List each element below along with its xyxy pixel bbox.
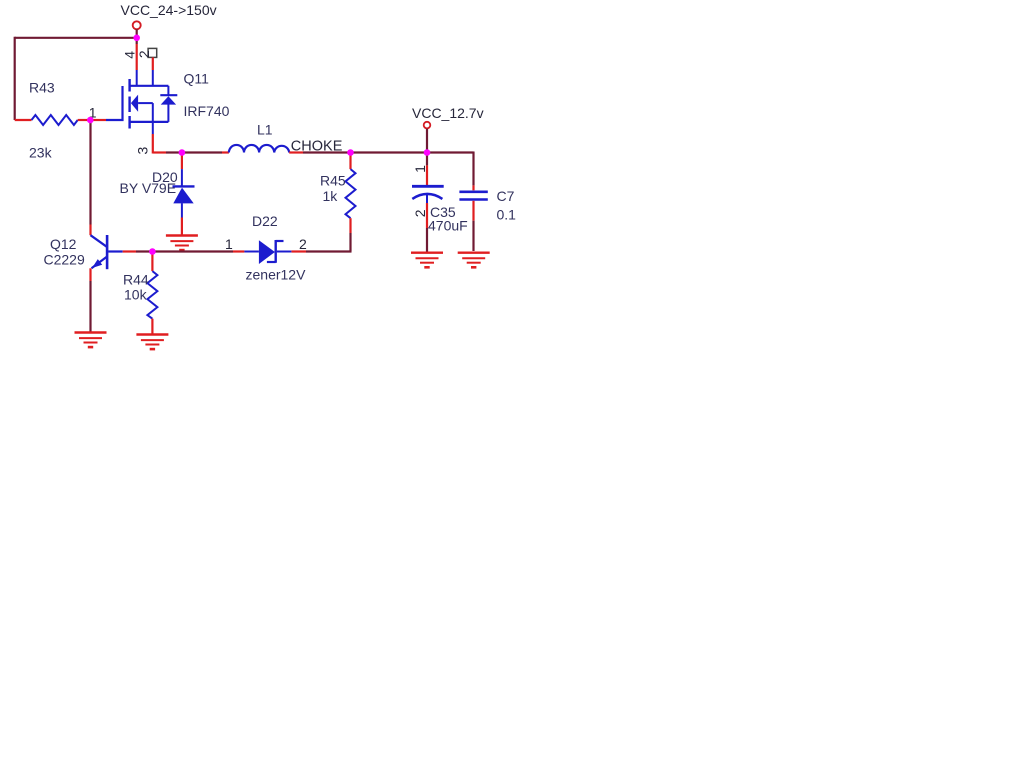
wire bottom run base to R45 corner [108, 250, 123, 252]
pin 2 wire of Q11 [152, 57, 154, 70]
svg-text:R45: R45 [320, 173, 346, 189]
pin 4 wire of Q11 [136, 38, 138, 44]
ground under D20 [166, 236, 198, 251]
ground under C7 [458, 253, 490, 268]
substrate arrow [131, 95, 138, 112]
svg-text:1: 1 [412, 165, 428, 173]
svg-text:470uF: 470uF [428, 218, 468, 234]
capacitor C7 0.1 [459, 152, 516, 252]
resistor R44 [123, 253, 157, 334]
inductor L1 [229, 122, 289, 153]
svg-text:Q11: Q11 [184, 71, 210, 87]
body diode [167, 86, 169, 96]
wire L1 to C7 corner [289, 151, 303, 153]
svg-text:10k: 10k [124, 287, 148, 303]
wire top horizontal [15, 37, 137, 39]
transistor Q11 MOSFET IRF740 [106, 71, 230, 129]
pin 3 wire of Q11 (source) [152, 122, 154, 134]
svg-text:1: 1 [225, 236, 233, 252]
diode D22 zener12V [244, 213, 306, 283]
svg-text:R43: R43 [29, 80, 55, 96]
svg-text:C7: C7 [497, 188, 515, 204]
ground under C35 [411, 253, 443, 268]
unconnected square pin 2 marker [148, 48, 157, 57]
svg-text:IRF740: IRF740 [184, 103, 230, 119]
svg-text:0.1: 0.1 [497, 207, 517, 223]
svg-text:2: 2 [136, 50, 152, 58]
svg-text:3: 3 [135, 146, 151, 154]
channel segments [128, 79, 130, 92]
svg-text:C2229: C2229 [44, 252, 85, 268]
power symbol VCC_12.7v [412, 105, 484, 153]
node junction at R45 [347, 149, 354, 156]
svg-text:zener12V: zener12V [246, 267, 307, 283]
diode D20 BY V79E [120, 154, 195, 235]
svg-text:VCC_24->150v: VCC_24->150v [121, 2, 217, 18]
power symbol VCC_24->150v [121, 2, 217, 38]
source bottom bar [130, 121, 169, 123]
svg-text:23k: 23k [29, 145, 53, 161]
svg-text:L1: L1 [257, 122, 273, 138]
node junction at VCC_24 [133, 35, 140, 42]
svg-text:2: 2 [412, 209, 428, 217]
transistor Q12 C2229 [44, 225, 108, 332]
node junction at R44 [149, 248, 156, 255]
node junction R43/gate [87, 117, 94, 124]
svg-text:1k: 1k [323, 188, 339, 204]
wire junction down to Q12 collector [89, 121, 91, 225]
svg-text:R44: R44 [123, 272, 149, 288]
svg-text:VCC_12.7v: VCC_12.7v [412, 105, 484, 121]
svg-text:BY V79E: BY V79E [120, 180, 177, 196]
svg-text:D22: D22 [252, 213, 278, 229]
drain top bar [130, 85, 169, 87]
gate lead and bar [106, 86, 123, 120]
svg-text:2: 2 [299, 236, 307, 252]
capacitor C35 470uF [412, 153, 468, 252]
node junction switch node [179, 149, 186, 156]
wire source to node [153, 151, 166, 153]
resistor R43 [15, 80, 91, 161]
wire left vertical [14, 37, 16, 120]
ground under Q12 emitter [75, 333, 107, 348]
ground under R44 [136, 335, 168, 350]
node junction at VCC_12.7 [424, 149, 431, 156]
svg-text:Q12: Q12 [50, 236, 77, 252]
wire junction to gate [90, 119, 106, 121]
resistor R45 [320, 154, 356, 252]
